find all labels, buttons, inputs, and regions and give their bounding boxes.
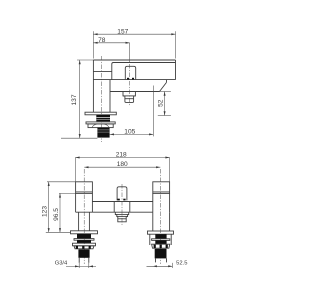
svg-text:52: 52 <box>157 99 164 107</box>
svg-text:123: 123 <box>41 206 48 217</box>
svg-text:96.5: 96.5 <box>53 208 60 221</box>
svg-text:157: 157 <box>117 28 128 35</box>
svg-text:105: 105 <box>124 129 135 136</box>
svg-text:180: 180 <box>117 161 128 168</box>
svg-text:G3/4: G3/4 <box>55 261 68 267</box>
svg-text:218: 218 <box>116 152 127 159</box>
svg-text:137: 137 <box>71 94 78 105</box>
svg-text:52.5: 52.5 <box>176 261 187 267</box>
svg-text:78: 78 <box>98 37 106 44</box>
